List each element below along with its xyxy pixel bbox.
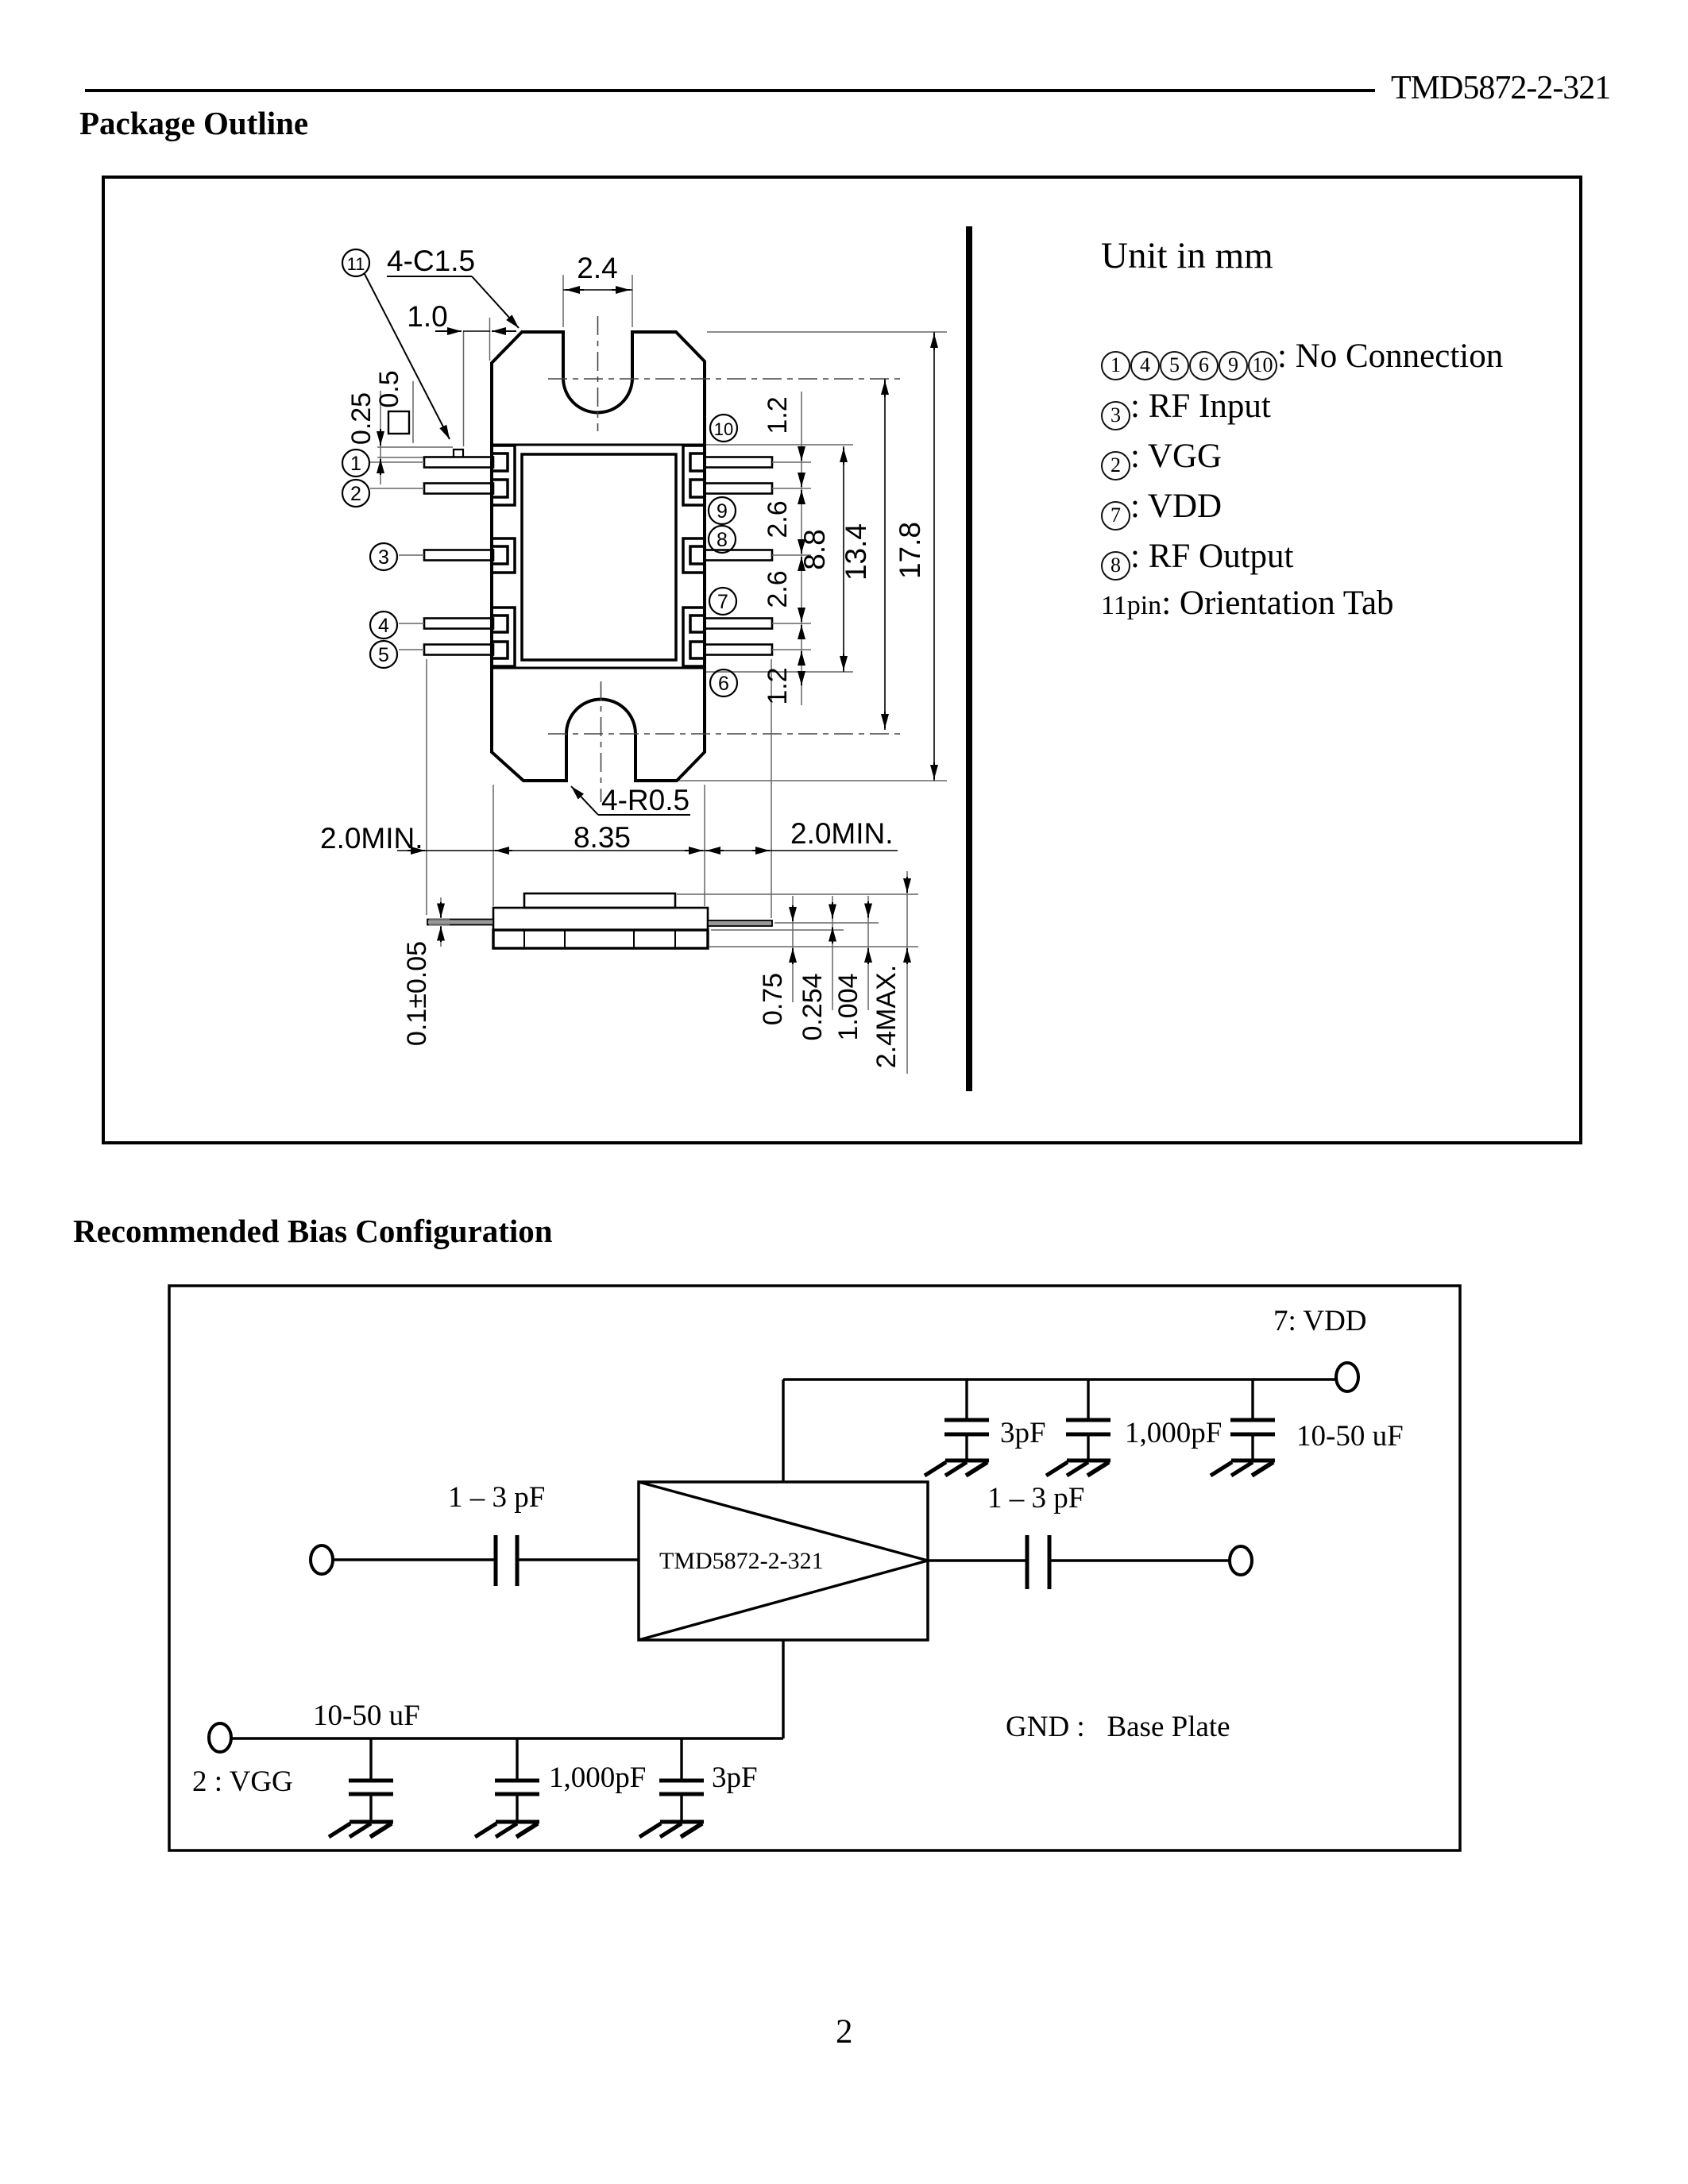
op-amp U1 TMD5872-2-321 xyxy=(639,1482,928,1640)
svg-text:2.0MIN.: 2.0MIN. xyxy=(320,822,423,855)
side view dim arrows xyxy=(440,902,442,918)
pin legend text block xyxy=(1101,234,1273,277)
svg-text:10-50 uF: 10-50 uF xyxy=(313,1700,420,1732)
VGG rail wire xyxy=(231,1737,783,1739)
package body outline xyxy=(492,332,705,781)
capacitor C7 1,000pF xyxy=(495,1738,539,1822)
wire amp output to C2 xyxy=(928,1559,1027,1561)
ground under C5 10-50uF xyxy=(1211,1461,1275,1476)
pin 10 lead xyxy=(705,457,772,468)
svg-text:0.254: 0.254 xyxy=(798,973,828,1040)
leader 4-R0.5 xyxy=(598,814,690,816)
RF output port xyxy=(1230,1546,1252,1575)
figure 1 frame xyxy=(102,176,1582,1144)
svg-text:7: 7 xyxy=(717,591,728,613)
dim 13.4 xyxy=(884,379,886,730)
svg-text:10: 10 xyxy=(714,419,733,439)
VDD port xyxy=(1336,1363,1358,1391)
package cap lower parting line xyxy=(492,667,705,669)
svg-text:6: 6 xyxy=(718,673,729,695)
svg-text:17.8: 17.8 xyxy=(894,522,926,579)
svg-text:TMD5872-2-321: TMD5872-2-321 xyxy=(659,1548,824,1574)
pin 8 lead xyxy=(705,550,772,561)
side view base plate xyxy=(493,930,708,948)
ground under C4 1,000pF xyxy=(1046,1461,1111,1476)
svg-text:1.0: 1.0 xyxy=(407,300,447,333)
header doc number xyxy=(1391,69,1610,107)
RF input port xyxy=(311,1545,333,1574)
extension lines dim 2.4 xyxy=(562,275,564,327)
pin 6 lead xyxy=(705,645,772,655)
svg-text:1.2: 1.2 xyxy=(763,667,793,704)
capacitor C4 1,000pF xyxy=(1066,1379,1111,1461)
header rule xyxy=(85,89,1375,92)
lid rectangle xyxy=(522,454,676,660)
capacitor C8 3pF xyxy=(659,1738,704,1822)
VDD rail wire xyxy=(783,1378,1336,1380)
pin 1 lead xyxy=(424,457,493,468)
side view extension lines xyxy=(677,893,918,895)
dim 1.0 xyxy=(435,330,462,332)
capacitor C5 10-50uF xyxy=(1230,1379,1275,1461)
extension lines right side xyxy=(707,331,947,333)
svg-text:1.004: 1.004 xyxy=(833,973,863,1040)
extension lines dim 1.0 xyxy=(463,331,465,446)
pin 2 lead xyxy=(424,484,493,494)
svg-text:4-R0.5: 4-R0.5 xyxy=(601,784,689,816)
pin 7 lead xyxy=(705,619,772,629)
ground under C3 3pF xyxy=(925,1461,989,1476)
svg-text:2: 2 xyxy=(350,483,361,505)
svg-text:8: 8 xyxy=(717,529,728,551)
pin number circles xyxy=(342,249,737,696)
svg-text:1 – 3 pF: 1 – 3 pF xyxy=(448,1481,545,1514)
wire C2 to output port xyxy=(1049,1559,1230,1561)
svg-text:0.25: 0.25 xyxy=(346,392,377,445)
lead clamp pins 7-6 xyxy=(683,608,705,666)
svg-text:2.6: 2.6 xyxy=(763,500,793,538)
lead clamp pin 8 xyxy=(683,538,705,573)
pin 5 lead xyxy=(424,645,493,655)
bottom notch centerline vertical xyxy=(601,681,602,802)
ground under C8 3pF xyxy=(639,1822,704,1837)
capacitor C1 1-3pF series input xyxy=(494,1535,498,1586)
svg-text:3pF: 3pF xyxy=(1000,1417,1046,1449)
dim 2.4 xyxy=(566,289,584,291)
svg-text:4-C1.5: 4-C1.5 xyxy=(387,245,475,277)
svg-text:1,000pF: 1,000pF xyxy=(1125,1417,1222,1449)
bottom notch centerline horizontal xyxy=(548,733,900,735)
pin 3 lead xyxy=(424,550,493,561)
svg-text:1.2: 1.2 xyxy=(763,396,793,434)
package cap upper parting line xyxy=(492,444,705,446)
pin 9 lead xyxy=(705,484,772,494)
dim 17.8 xyxy=(933,332,935,781)
svg-text:8.8: 8.8 xyxy=(798,529,831,569)
section heading: Recommended Bias Configuration xyxy=(73,1212,553,1250)
dim line bottom xyxy=(397,850,898,851)
extension lines tab dims xyxy=(377,446,453,448)
wire input port to C1 xyxy=(333,1558,496,1561)
svg-text:1: 1 xyxy=(350,453,361,475)
svg-text:7: VDD: 7: VDD xyxy=(1273,1305,1367,1337)
lead clamp pins 4-5 xyxy=(493,608,515,666)
dim 0.25 arrows xyxy=(380,429,381,446)
top notch centerline vertical xyxy=(597,316,599,431)
pin 4 lead xyxy=(424,619,493,629)
VGG port xyxy=(209,1723,231,1752)
pin leader lines to circles xyxy=(370,461,424,463)
svg-text:3pF: 3pF xyxy=(712,1761,758,1794)
ground under C6 10-50uF xyxy=(329,1822,393,1837)
side view right lead xyxy=(708,920,772,926)
svg-text:9: 9 xyxy=(717,500,728,523)
orientation tab bump on pin 1 xyxy=(454,450,463,457)
side view left lead xyxy=(427,920,493,925)
figure 2 frame xyxy=(169,1286,1460,1850)
divider bar xyxy=(966,226,972,1091)
svg-text:4: 4 xyxy=(378,615,389,637)
svg-text:0.1±0.05: 0.1±0.05 xyxy=(402,941,432,1046)
lead clamp pins 1-2 xyxy=(493,446,515,505)
0.5 square symbol xyxy=(388,411,409,434)
leader 4-C1.5 xyxy=(387,276,472,277)
svg-text:2 : VGG: 2 : VGG xyxy=(192,1765,293,1798)
leader pin 11 tab xyxy=(365,274,450,439)
wire amp bottom to VGG rail xyxy=(782,1640,784,1738)
capacitor C2 1-3pF series output xyxy=(1026,1535,1029,1589)
wire amp top to VDD rail xyxy=(782,1379,784,1482)
dim 8.8 xyxy=(843,446,844,672)
page number xyxy=(836,2012,853,2051)
svg-text:3: 3 xyxy=(378,546,389,569)
capacitor C3 3pF xyxy=(944,1379,989,1461)
svg-text:2.4MAX.: 2.4MAX. xyxy=(871,965,902,1068)
side view lid xyxy=(524,893,675,908)
top notch centerline horizontal xyxy=(548,378,900,380)
lead clamp pins 10-9 xyxy=(683,446,705,505)
side view xyxy=(427,893,772,948)
side view body xyxy=(493,908,708,930)
svg-text:11: 11 xyxy=(347,254,365,274)
svg-text:8.35: 8.35 xyxy=(574,821,631,854)
svg-text:1,000pF: 1,000pF xyxy=(549,1761,646,1794)
svg-text:2.6: 2.6 xyxy=(763,570,793,608)
ground under C7 1,000pF xyxy=(475,1822,539,1837)
svg-text:13.4: 13.4 xyxy=(840,523,872,581)
section heading: Package Outline xyxy=(79,104,308,142)
capacitor C6 10-50uF xyxy=(349,1738,393,1822)
extension lines dims bottom xyxy=(426,659,427,915)
svg-text:0.75: 0.75 xyxy=(758,973,788,1025)
svg-text:5: 5 xyxy=(378,644,389,666)
pin pitch arrows xyxy=(801,449,802,461)
svg-text:2.0MIN.: 2.0MIN. xyxy=(790,817,894,850)
svg-text:GND : Base Plate: GND : Base Plate xyxy=(1006,1711,1230,1743)
svg-text:1 – 3 pF: 1 – 3 pF xyxy=(987,1482,1084,1515)
lead clamp pin 3 xyxy=(493,538,515,573)
svg-text:2.4: 2.4 xyxy=(577,252,617,284)
svg-text:10-50 uF: 10-50 uF xyxy=(1296,1420,1404,1453)
svg-text:0.5: 0.5 xyxy=(374,370,404,407)
wire C1 to amp xyxy=(517,1558,639,1561)
